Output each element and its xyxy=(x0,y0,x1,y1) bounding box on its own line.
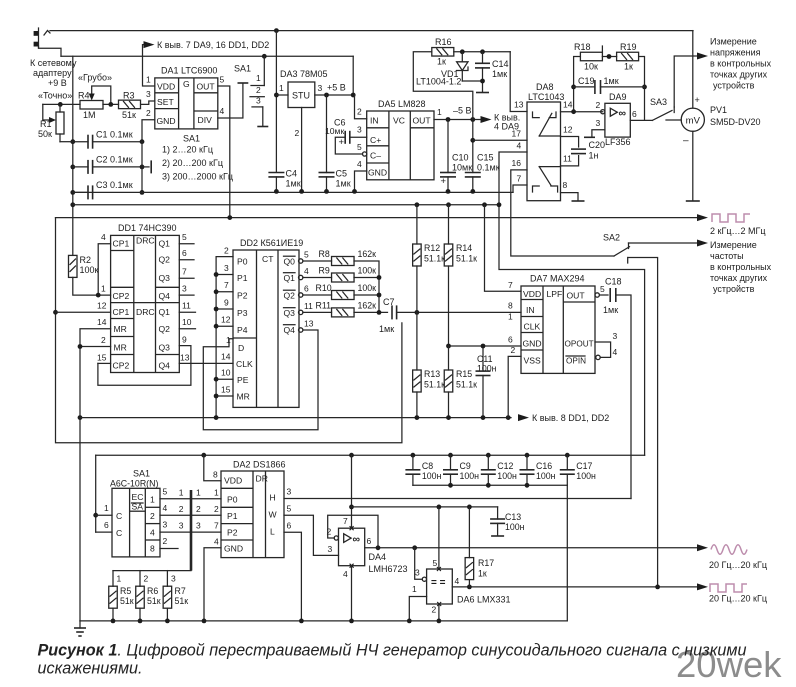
wire DA7 GND line xyxy=(449,345,522,347)
R18 top tick xyxy=(601,46,603,52)
filter DA7 MAX294 xyxy=(521,286,595,373)
junctions bottom rail xyxy=(111,619,442,624)
svg-text:1: 1 xyxy=(117,574,122,584)
capacitor C15 0.1uF xyxy=(465,173,481,177)
svg-text:CT: CT xyxy=(262,254,274,264)
inverter DA5 LM828 xyxy=(367,111,434,180)
wire R16 left to -5V xyxy=(413,52,473,120)
wire R18 left down xyxy=(574,57,581,112)
svg-text:3: 3 xyxy=(256,96,261,106)
wire R17 riser xyxy=(468,507,470,558)
svg-text:4: 4 xyxy=(357,159,362,169)
capacitor C16 100n xyxy=(520,470,535,474)
wire SA1b pin1 riser xyxy=(95,455,97,532)
svg-text:7: 7 xyxy=(343,516,348,526)
svg-text:7: 7 xyxy=(517,174,522,184)
wire SA3 to voltage arrow xyxy=(674,56,697,107)
junctions DA4 out xyxy=(376,545,418,550)
svg-text:100к: 100к xyxy=(358,266,377,276)
svg-text:4: 4 xyxy=(220,106,225,116)
svg-text:13: 13 xyxy=(514,100,524,110)
svg-text:IN: IN xyxy=(526,305,535,315)
resistor R8 162k xyxy=(332,257,355,266)
wire DD1 Q2-10 stub xyxy=(179,328,195,330)
svg-text:7: 7 xyxy=(224,280,229,290)
wire R6 drop xyxy=(139,571,141,587)
switch SA1 section1 common bar xyxy=(238,82,249,84)
svg-text:2: 2 xyxy=(144,574,149,584)
svg-text:GND: GND xyxy=(368,168,387,178)
wire R1 bottom to C1 node xyxy=(60,141,73,143)
oscillator DA1 LTC6900 xyxy=(155,78,218,129)
svg-text:DIV: DIV xyxy=(198,115,213,125)
svg-text:W: W xyxy=(269,510,278,520)
svg-text:51.1к: 51.1к xyxy=(456,254,477,264)
svg-text:8: 8 xyxy=(150,544,155,554)
svg-text:GND: GND xyxy=(157,116,176,126)
op-amp DA4 LMH6723 xyxy=(339,526,365,568)
svg-text:OUT: OUT xyxy=(197,82,216,92)
svg-text:R17: R17 xyxy=(478,558,494,568)
wire R19 right down xyxy=(639,57,645,121)
svg-text:5: 5 xyxy=(433,558,438,568)
wire C15 riser xyxy=(472,120,474,173)
capacitor C17 100n xyxy=(560,470,575,474)
svg-text:C17: C17 xyxy=(576,461,592,471)
svg-text:1мк: 1мк xyxy=(286,179,301,189)
overline SA xyxy=(132,502,144,504)
svg-text:R12: R12 xyxy=(424,243,440,253)
wire DA7 VDD riser xyxy=(485,205,522,291)
svg-text:6: 6 xyxy=(508,335,513,345)
wire C8 top xyxy=(412,455,414,470)
wire Tochno node xyxy=(43,103,80,105)
junctions caps bottom rail xyxy=(448,483,529,488)
resistor R16 1k xyxy=(432,48,454,57)
junction C2 right xyxy=(140,165,145,170)
junctions on left rail xyxy=(70,139,75,207)
svg-text:100н: 100н xyxy=(536,471,556,481)
svg-text:10: 10 xyxy=(221,368,231,378)
svg-text:mV: mV xyxy=(686,116,701,127)
svg-text:∞: ∞ xyxy=(353,534,361,546)
overline OPIN xyxy=(566,355,585,357)
arrow to pin7 DA9 16 DD1 DD2 xyxy=(144,41,155,48)
svg-text:К выв. 7 DA9, 16 DD1, DD2: К выв. 7 DA9, 16 DD1, DD2 xyxy=(157,40,269,50)
resistor R17 1k xyxy=(465,558,474,580)
svg-text:точках других: точках других xyxy=(710,70,768,80)
svg-text:P1: P1 xyxy=(237,273,248,283)
wire DA2 VDD riser xyxy=(204,455,221,481)
wire R13 bottom xyxy=(416,392,418,418)
pin circle Q3 DD2 xyxy=(299,310,303,314)
svg-text:5: 5 xyxy=(163,487,168,497)
wire R12 riser xyxy=(416,205,418,244)
wire DA6 out square line xyxy=(452,586,697,588)
wire DA4 feedback xyxy=(328,515,378,548)
resistor R14 51.1k xyxy=(444,244,453,266)
svg-text:15: 15 xyxy=(221,385,231,395)
svg-text:LPF: LPF xyxy=(547,289,563,299)
junction C7 R12 xyxy=(415,310,420,315)
svg-text:8: 8 xyxy=(213,470,218,480)
svg-text:11: 11 xyxy=(563,154,572,164)
wire C2 right xyxy=(93,166,142,168)
svg-text:R19: R19 xyxy=(620,42,637,52)
junction CP1-12 tap xyxy=(53,310,58,315)
svg-text:R1: R1 xyxy=(40,119,52,129)
junctions top line lower xyxy=(201,453,569,458)
svg-text:20 Гц…20 кГц: 20 Гц…20 кГц xyxy=(709,594,767,604)
svg-text:DA3 78M05: DA3 78M05 xyxy=(280,69,328,79)
svg-text:3: 3 xyxy=(415,568,420,578)
svg-text:DA7 MAX294: DA7 MAX294 xyxy=(530,274,585,284)
svg-text:Рисунок 1. Цифровой перестраив: Рисунок 1. Цифровой перестраиваемый НЧ г… xyxy=(38,642,747,660)
svg-text:11: 11 xyxy=(304,301,313,311)
wire DD1 Q3-9 to CP2-15 wrap xyxy=(98,346,191,386)
wire C8 bottom xyxy=(412,474,414,485)
svg-text:51.1к: 51.1к xyxy=(456,380,477,390)
svg-text:4: 4 xyxy=(455,576,460,586)
wire C9 bottom xyxy=(450,474,452,485)
wire C16 top xyxy=(526,455,528,470)
svg-text:SA2: SA2 xyxy=(603,233,620,243)
wire R5 bottom xyxy=(112,608,114,621)
wire frame left clock drop xyxy=(56,218,402,443)
wire DD1 CP1-4 xyxy=(98,244,110,295)
svg-text:14: 14 xyxy=(221,352,231,362)
arrow sine output xyxy=(697,544,708,551)
wire C1 left xyxy=(73,141,88,143)
svg-text:OPIN: OPIN xyxy=(566,357,586,366)
svg-text:2: 2 xyxy=(146,108,151,118)
wire DD2 P2 xyxy=(216,291,233,293)
svg-text:VDD: VDD xyxy=(157,82,175,92)
svg-text:17: 17 xyxy=(512,129,522,139)
wire DD1 CP1-12 xyxy=(56,311,111,313)
svg-text:4: 4 xyxy=(304,266,309,276)
svg-text:4: 4 xyxy=(613,347,618,357)
wire R4 to R3 xyxy=(103,103,119,105)
svg-text:+5 В: +5 В xyxy=(327,83,346,93)
svg-text:5: 5 xyxy=(304,250,309,260)
svg-text:5: 5 xyxy=(287,504,292,514)
wire DD1 MR2 xyxy=(80,346,111,348)
wire +5V riser to rail2 xyxy=(352,56,354,95)
svg-text:VDD: VDD xyxy=(523,289,541,299)
wire R14 riser xyxy=(448,205,450,244)
svg-text:C: C xyxy=(116,528,122,538)
wire DD2 P0 xyxy=(216,257,233,418)
svg-text:C+: C+ xyxy=(370,135,381,145)
junctions +5V node xyxy=(324,93,356,98)
svg-text:7: 7 xyxy=(508,280,513,290)
svg-text:Q1: Q1 xyxy=(159,239,171,249)
wire SA1b out4 stub xyxy=(160,548,178,550)
svg-text:устройств: устройств xyxy=(713,81,755,91)
junction DA3 pin1 xyxy=(274,93,279,98)
svg-text:1: 1 xyxy=(104,503,109,513)
wire C19 left xyxy=(574,86,595,88)
svg-text:1: 1 xyxy=(150,495,155,505)
arrow output 2kHz-2MHz xyxy=(697,214,708,221)
svg-text:Q1: Q1 xyxy=(159,307,171,317)
svg-text:DA2 DS1866: DA2 DS1866 xyxy=(233,460,286,470)
wire DA5 IN from +5 xyxy=(355,95,367,119)
junction R18 C19 left xyxy=(571,85,576,90)
svg-text:12: 12 xyxy=(221,315,231,325)
wire C10 bottom xyxy=(447,177,449,192)
waveform symbol square 2kHz-2MHz xyxy=(712,214,750,222)
junction CP1-4 CP2-1 xyxy=(96,293,101,298)
wire C12 bottom xyxy=(487,474,489,485)
switch IC DA8 LTC1043 xyxy=(527,102,561,201)
wire C7 to DA7 IN xyxy=(397,311,521,313)
svg-text:в контрольных: в контрольных xyxy=(710,262,772,272)
svg-text:2: 2 xyxy=(256,85,261,95)
svg-text:5: 5 xyxy=(220,75,225,85)
labels Q0-Q4 outputs DD2 xyxy=(284,256,296,335)
wire DA3 pin1 stub xyxy=(276,94,288,96)
wire R18 to R19 xyxy=(602,56,616,58)
wire DA2 W to DA4 pin3 xyxy=(284,515,339,555)
svg-text:C: C xyxy=(116,511,122,521)
pin circle Q0 DD2 xyxy=(299,259,303,263)
svg-text:1к: 1к xyxy=(624,62,633,72)
wire DA8 pin7 to rail1 xyxy=(513,185,527,192)
svg-text:8: 8 xyxy=(563,180,568,190)
svg-text:+: + xyxy=(441,176,447,187)
svg-text:100н: 100н xyxy=(460,471,480,481)
wire C5 riser xyxy=(326,95,328,173)
wire DA3 pin3 +5V xyxy=(315,94,353,96)
wire DD2 MR xyxy=(216,395,233,397)
svg-text:100к: 100к xyxy=(80,265,99,275)
wire C6 left plate to C- xyxy=(335,137,362,154)
terminal bar pin3 DA9 xyxy=(584,136,595,138)
svg-text:К сетевому: К сетевому xyxy=(30,58,77,68)
svg-text:LT1004-1.2: LT1004-1.2 xyxy=(416,77,461,87)
capacitor C4 1uF xyxy=(268,173,284,177)
svg-text:C14: C14 xyxy=(492,59,509,69)
svg-text:1: 1 xyxy=(101,284,106,294)
wire R7 drop xyxy=(166,571,168,587)
switch SA1 contact 1 stub xyxy=(251,85,264,87)
junctions rail1 xyxy=(274,189,475,194)
svg-text:SA3: SA3 xyxy=(650,97,667,107)
svg-text:STU: STU xyxy=(292,91,310,101)
svg-text:точках других: точках других xyxy=(710,273,768,283)
wire C11 riser xyxy=(482,346,484,371)
svg-text:2: 2 xyxy=(224,246,229,256)
svg-text:G: G xyxy=(183,79,190,89)
wire C4 bottom xyxy=(275,177,277,192)
svg-text:2: 2 xyxy=(150,511,155,521)
waveform symbol square 20Hz-20kHz xyxy=(710,584,747,592)
switch SA1 contact 3 stub xyxy=(252,106,263,108)
svg-text:100н: 100н xyxy=(576,471,596,481)
junctions square line xyxy=(467,585,660,590)
terminal bar C13 xyxy=(491,535,504,537)
wire R17 bottom xyxy=(468,580,470,587)
svg-text:∞: ∞ xyxy=(619,108,627,120)
wire bus down to resistors xyxy=(113,570,191,572)
svg-text:14: 14 xyxy=(563,100,573,110)
connector X1 to mains adapter xyxy=(34,28,50,48)
waveform symbol sine 20Hz-20kHz xyxy=(711,545,747,555)
svg-text:7: 7 xyxy=(214,521,219,531)
junctions -5V node xyxy=(446,117,476,122)
svg-text:100н: 100н xyxy=(505,522,525,532)
wire +5V line lower xyxy=(352,506,498,508)
wire R12 bottom xyxy=(416,266,418,312)
svg-text:7: 7 xyxy=(182,267,187,277)
arrow square output xyxy=(697,583,708,590)
wire C17 bottom xyxy=(566,474,568,485)
wire DA5 OUT -5V line xyxy=(434,119,481,121)
wire DD2 P4 xyxy=(216,325,233,327)
svg-text:L: L xyxy=(270,527,275,537)
wire Q0 to R8 xyxy=(303,260,332,262)
wire DA5 GND to rail1 xyxy=(355,171,367,191)
svg-text:VDD: VDD xyxy=(224,476,242,486)
wire DA1 DIV to SA1 blade xyxy=(218,84,243,118)
wire bus to P1 xyxy=(191,514,221,516)
svg-text:2: 2 xyxy=(596,100,601,110)
capacitor C18 1uF xyxy=(610,288,616,302)
pin 3 circle DA6 xyxy=(422,577,426,581)
svg-text:+: + xyxy=(339,137,345,148)
wire rail2 -5V distribution xyxy=(73,204,499,206)
svg-text:CP2: CP2 xyxy=(113,291,130,301)
wire connector minus to rail2 xyxy=(39,46,62,56)
svg-text:SA1: SA1 xyxy=(234,64,251,74)
svg-text:«Точно»: «Точно» xyxy=(38,91,72,101)
svg-text:OUT: OUT xyxy=(567,291,586,301)
svg-text:Q4: Q4 xyxy=(159,361,171,371)
svg-text:SM5D-DV20: SM5D-DV20 xyxy=(710,117,761,127)
svg-text:R3: R3 xyxy=(123,91,135,101)
wire C11 bottom xyxy=(482,376,484,418)
wire ground rail1 xyxy=(73,191,513,193)
svg-text:C11: C11 xyxy=(477,354,493,364)
svg-text:9: 9 xyxy=(224,298,229,308)
svg-text:R16: R16 xyxy=(435,37,452,47)
svg-text:SET: SET xyxy=(157,97,174,107)
svg-text:12: 12 xyxy=(97,301,107,311)
junction R4 wiper xyxy=(108,102,113,107)
svg-text:11: 11 xyxy=(182,301,191,311)
junction C1 right xyxy=(140,139,145,144)
svg-text:162к: 162к xyxy=(358,301,377,311)
junctions R16 right xyxy=(460,49,485,54)
wire SA1 upper contact1 riser xyxy=(263,56,265,85)
svg-text:100н: 100н xyxy=(422,471,442,481)
wire SA1b out1 xyxy=(160,498,191,500)
terminal bar SA1 contact3 xyxy=(257,126,268,128)
op-amp DA9 LF356 xyxy=(605,103,630,137)
svg-text:1: 1 xyxy=(196,488,201,498)
svg-text:1к: 1к xyxy=(478,569,487,579)
svg-text:6: 6 xyxy=(304,284,309,294)
svg-text:1: 1 xyxy=(412,584,417,594)
capacitor C2 0.1uF xyxy=(88,160,93,174)
pin circle Q1 DD2 xyxy=(299,275,303,279)
svg-text:Q3: Q3 xyxy=(159,343,171,353)
svg-text:Q0: Q0 xyxy=(284,257,296,267)
svg-text:51к: 51к xyxy=(147,596,161,606)
junction VD1 C14 xyxy=(480,79,485,84)
wire caps rail down to ground xyxy=(566,485,568,621)
potentiometer R1 50k xyxy=(43,104,64,141)
svg-text:P4: P4 xyxy=(237,325,248,335)
resistor R9 100k xyxy=(332,273,355,282)
svg-text:OPOUT: OPOUT xyxy=(565,340,594,349)
pin circle Q4 DD2 xyxy=(299,328,303,332)
svg-text:3: 3 xyxy=(596,118,601,128)
wire caps bottom rail xyxy=(413,484,567,486)
svg-text:4: 4 xyxy=(150,528,155,538)
svg-text:13: 13 xyxy=(304,319,314,329)
svg-text:DD1 74HC390: DD1 74HC390 xyxy=(118,223,177,233)
switch SA1 section2 contact xyxy=(142,160,151,173)
wire DD1 Q4-13 to DD2 CLK xyxy=(179,362,233,364)
svg-text:CLK: CLK xyxy=(236,359,253,369)
wire R2 bottom to CP2 xyxy=(73,277,111,295)
wire DD2 PE xyxy=(216,378,233,380)
wire DA8 pin17 xyxy=(473,139,527,141)
wire left +9V rail vertical xyxy=(72,56,74,255)
wire SA2 lower contact tap xyxy=(628,258,658,588)
svg-text:EC: EC xyxy=(132,492,144,502)
junction R14 GND line xyxy=(446,344,451,349)
svg-text:3: 3 xyxy=(146,89,151,99)
wire C1 right xyxy=(93,141,142,143)
wire DA3 pin2 down xyxy=(301,108,303,192)
junction PE xyxy=(214,377,219,382)
wire ground rail4 xyxy=(80,417,511,419)
counter DD2 K561IE19 xyxy=(233,250,299,407)
resistor R18 10k xyxy=(580,52,602,61)
svg-text:OUT: OUT xyxy=(413,116,432,126)
capacitor C9 100n xyxy=(443,470,458,474)
svg-text:3: 3 xyxy=(613,331,618,341)
svg-text:2: 2 xyxy=(196,504,201,514)
svg-text:P0: P0 xyxy=(237,257,248,267)
wire C9 top xyxy=(450,455,452,470)
svg-text:GND: GND xyxy=(523,339,542,349)
svg-text:51.1к: 51.1к xyxy=(424,254,445,264)
svg-text:R4: R4 xyxy=(78,91,90,101)
capacitor C13 100n xyxy=(490,519,505,523)
svg-text:6: 6 xyxy=(104,520,109,530)
svg-text:DA8: DA8 xyxy=(536,82,554,92)
wire SA2 to freq arrow xyxy=(629,242,698,244)
svg-text:51к: 51к xyxy=(122,110,136,120)
svg-text:1: 1 xyxy=(437,107,442,117)
svg-text:R15: R15 xyxy=(456,369,472,379)
svg-text:4: 4 xyxy=(163,503,168,513)
wire cap bank common vertical xyxy=(141,142,143,193)
wire R5 drop xyxy=(112,571,114,587)
svg-text:Q2: Q2 xyxy=(159,255,171,265)
capacitor C12 100n xyxy=(481,470,496,474)
svg-text:LF356: LF356 xyxy=(605,137,631,147)
svg-text:частоты: частоты xyxy=(710,251,744,261)
pin 5 circle DA5 xyxy=(363,152,367,156)
wire DA7 VSS riser xyxy=(508,356,521,417)
svg-text:Измерение: Измерение xyxy=(710,37,757,47)
